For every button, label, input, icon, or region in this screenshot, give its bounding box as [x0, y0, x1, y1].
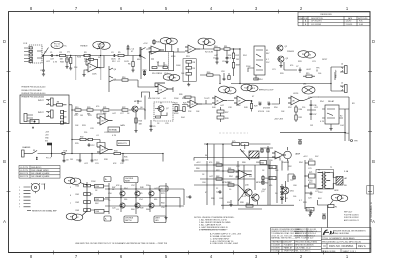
svg-text:6: 6	[70, 195, 71, 197]
svg-text:.047: .047	[220, 105, 224, 107]
svg-text:SM POTS: SM POTS	[20, 173, 29, 175]
svg-text:C56: C56	[161, 207, 165, 209]
svg-text:DESCRIPTION: DESCRIPTION	[311, 18, 323, 20]
svg-text:C23: C23	[308, 198, 311, 200]
svg-text:680: 680	[154, 199, 157, 201]
resistor R72	[305, 184, 315, 188]
svg-text:R80: R80	[196, 168, 200, 170]
svg-text:R29: R29	[254, 106, 257, 108]
svg-text:R15: R15	[306, 73, 309, 75]
svg-text:2 0013590: 2 0013590	[271, 248, 280, 250]
svg-text:C35: C35	[165, 123, 169, 125]
svg-text:R27: R27	[225, 112, 228, 114]
resistor R61	[228, 170, 234, 172]
svg-text:C11: C11	[267, 102, 270, 104]
connector J1	[24, 45, 42, 63]
input box header text rows	[22, 87, 46, 95]
svg-text:R42: R42	[182, 98, 186, 100]
cap C24	[189, 195, 192, 199]
resistor R42	[84, 201, 91, 204]
svg-text:680: 680	[137, 59, 140, 61]
svg-text:C10: C10	[258, 102, 261, 104]
svg-text:.047: .047	[112, 113, 116, 115]
svg-text:4700: 4700	[308, 180, 312, 182]
svg-text:R12: R12	[236, 55, 239, 57]
op-amp U4	[97, 116, 113, 125]
svg-text:560: 560	[124, 199, 127, 201]
svg-text:C32: C32	[120, 163, 124, 165]
resistor R32	[80, 138, 88, 140]
feedback U9	[97, 140, 105, 150]
long bus y132.6	[280, 132, 346, 134]
svg-text:MATERIAL: SEE NOTES ___: MATERIAL: SEE NOTES ___	[271, 237, 296, 240]
oval callout P/O J3	[298, 51, 316, 58]
pa to ps link wires	[194, 158, 288, 171]
svg-text:LG POTS: LG POTS	[20, 167, 29, 169]
svg-text:.047: .047	[214, 55, 218, 57]
svg-text:C18: C18	[221, 71, 224, 73]
svg-text:10: 10	[229, 189, 231, 191]
svg-text:47: 47	[205, 192, 207, 194]
svg-text:2: 2	[19, 190, 20, 192]
notes leader ticks	[170, 189, 184, 208]
label stack power	[45, 132, 50, 143]
svg-text:CO #81145: CO #81145	[311, 24, 322, 26]
svg-text:4558: 4558	[174, 113, 178, 115]
svg-text:INPUT: INPUT	[38, 100, 45, 102]
op-amp U5	[187, 100, 202, 108]
svg-text:C25: C25	[74, 115, 78, 117]
svg-text:220K: 220K	[174, 98, 179, 100]
svg-text:PCB P/N 0013591: PCB P/N 0013591	[344, 214, 359, 216]
svg-text:J2: J2	[75, 181, 77, 183]
svg-text:RESISTOR ON SIGNAL REF: RESISTOR ON SIGNAL REF	[32, 210, 58, 213]
svg-text:R11: R11	[224, 46, 227, 48]
svg-text:C66: C66	[293, 185, 297, 187]
boxed label lower right	[154, 216, 166, 223]
comp near meter	[298, 140, 302, 145]
resistor R69	[269, 177, 276, 180]
svg-text:Q16: Q16	[245, 185, 249, 187]
svg-text:U6: U6	[216, 101, 218, 103]
svg-text:1N4448: 1N4448	[282, 162, 289, 164]
ground stub U1	[84, 70, 86, 73]
cap cluster left of lamp	[288, 174, 295, 182]
pa vertical wires	[207, 144, 268, 209]
svg-text:TP3: TP3	[202, 42, 205, 44]
ps vertical bus	[304, 160, 306, 209]
svg-text:R66: R66	[265, 178, 268, 180]
svg-text:J2: J2	[230, 90, 232, 92]
svg-text:5W: 5W	[249, 176, 252, 178]
svg-text:90: 90	[205, 155, 207, 157]
output bus outline	[318, 97, 349, 141]
svg-text:C15: C15	[125, 160, 128, 162]
zone numbers bottom	[30, 254, 349, 259]
transistor Q11	[120, 203, 125, 208]
svg-text:1M: 1M	[57, 102, 60, 104]
ground Q3	[280, 62, 282, 64]
svg-text:PCB ASSY: PCB ASSY	[284, 244, 294, 247]
resistor R62	[216, 178, 222, 180]
TP node	[351, 140, 353, 142]
svg-text:R34: R34	[114, 151, 117, 153]
left column wire x141	[141, 47, 146, 79]
resistor R45	[91, 194, 110, 201]
connector pin list	[24, 187, 31, 207]
ps ref text block	[344, 211, 359, 222]
svg-text:R42: R42	[76, 202, 79, 204]
svg-text:U9: U9	[101, 150, 103, 152]
svg-text:R65: R65	[261, 163, 264, 165]
svg-text:Q4: Q4	[114, 69, 117, 71]
diagonal wire	[304, 97, 319, 101]
svg-text:D: D	[3, 39, 6, 44]
svg-text:B: B	[372, 159, 375, 164]
resistor R26	[183, 96, 195, 104]
scan band vertical light gray x100	[100, 44, 101, 80]
svg-text:C17: C17	[164, 73, 168, 75]
boxed label upper mid	[124, 177, 138, 183]
svg-text:R20: R20	[87, 107, 90, 109]
resistor R60	[216, 164, 222, 166]
component above op-amp U1B	[153, 39, 155, 45]
junction node	[128, 47, 141, 58]
fuse box F1	[328, 205, 334, 208]
feedback resistor boxes U6	[217, 107, 224, 122]
svg-text:TO J2: TO J2	[244, 87, 249, 89]
second preamp row wire y139.5	[72, 139, 100, 141]
resistor R63	[228, 184, 234, 186]
sideways drawing number strip at right border	[367, 186, 374, 195]
svg-text:1M: 1M	[70, 159, 73, 161]
tick right of pot	[44, 184, 46, 190]
components K1 lower	[248, 68, 258, 80]
power supply value labels	[303, 156, 349, 204]
svg-text:5. REFERENCES NOT USED:: 5. REFERENCES NOT USED:	[199, 230, 227, 232]
svg-text:470/16: 470/16	[258, 111, 264, 113]
svg-text:R98: R98	[240, 202, 244, 204]
wire jacks link	[331, 67, 340, 91]
svg-text:C8: C8	[66, 160, 68, 162]
capacitor C2 to ground	[43, 56, 45, 69]
svg-text:FENDER P/N 005-6145-000: FENDER P/N 005-6145-000	[22, 87, 46, 89]
svg-text:R68: R68	[270, 167, 273, 169]
svg-text:LVL: LVL	[160, 189, 163, 191]
svg-text:100K: 100K	[236, 105, 241, 107]
oval pair TO J2 PIN	[241, 84, 258, 91]
svg-text:EFFECTS LOOP: EFFECTS LOOP	[259, 90, 274, 92]
svg-text:C9: C9	[44, 52, 46, 54]
svg-text:U4: U4	[101, 121, 103, 123]
component on left column	[143, 70, 147, 76]
svg-text:C52: C52	[131, 185, 135, 187]
power transistor Q17	[251, 194, 259, 201]
svg-text:TP6: TP6	[167, 77, 170, 79]
wires near lamp	[285, 181, 287, 202]
resistor R20	[87, 109, 93, 111]
svg-text:.01: .01	[163, 98, 166, 100]
svg-text:R25: R25	[183, 103, 186, 105]
junction dots input bus	[43, 55, 72, 56]
svg-text:C42: C42	[308, 97, 312, 99]
svg-text:R4: R4	[89, 55, 91, 57]
svg-text:R40 10K: R40 10K	[148, 98, 156, 100]
tick below box	[32, 127, 34, 130]
svg-text:R60: R60	[216, 162, 219, 164]
svg-text:T1: T1	[318, 170, 320, 172]
svg-text:1 0013589: 1 0013589	[271, 245, 280, 247]
svg-text:3: 3	[19, 193, 20, 195]
svg-text:A: A	[3, 219, 6, 224]
svg-text:R70: R70	[309, 159, 312, 161]
svg-text:C50: C50	[108, 193, 112, 195]
svg-text:R41: R41	[76, 194, 79, 196]
svg-text:C37: C37	[313, 114, 316, 116]
svg-text:7: 7	[19, 207, 20, 209]
svg-text:100: 100	[318, 73, 321, 75]
svg-text:2N5089: 2N5089	[287, 51, 294, 53]
op-amp U1B	[149, 46, 165, 54]
svg-text:10: 10	[99, 68, 101, 70]
svg-text:2: 2	[31, 51, 32, 53]
svg-text:R75: R75	[232, 141, 235, 143]
wire to next stage	[100, 56, 112, 68]
component near title block	[322, 214, 326, 219]
pa horizontal wires	[194, 165, 270, 185]
zone tick marks top	[54, 10, 279, 14]
svg-text:R56: R56	[345, 133, 349, 135]
svg-text:EFFECTS: EFFECTS	[118, 143, 127, 145]
vertical wire x240	[239, 49, 241, 77]
svg-text:.047: .047	[209, 176, 213, 178]
svg-text:.047: .047	[50, 59, 54, 61]
svg-text:R71: R71	[309, 172, 312, 174]
svg-text:220K: 220K	[91, 181, 96, 183]
ground under C2B	[65, 65, 68, 68]
svg-text:R24: R24	[174, 103, 177, 105]
svg-text:4.7K: 4.7K	[320, 121, 325, 123]
drops with caps	[80, 154, 123, 159]
potentiometer rear view	[31, 183, 40, 193]
svg-text:P/O: P/O	[302, 54, 306, 56]
svg-text:C31: C31	[95, 163, 99, 165]
wire Q1 out	[166, 44, 185, 52]
svg-text:470: 470	[269, 185, 272, 187]
resistor R18	[52, 152, 73, 154]
svg-text:R19: R19	[186, 56, 190, 58]
resistor R40	[84, 184, 91, 187]
svg-text:C13: C13	[76, 160, 79, 162]
svg-text:1.5K: 1.5K	[158, 73, 163, 75]
junction dots bus	[86, 185, 87, 211]
svg-text:4: 4	[31, 58, 32, 60]
svg-text:R16: R16	[122, 77, 125, 79]
resistor R71	[305, 174, 315, 178]
svg-text:R70: R70	[161, 193, 165, 195]
jack J6 input A	[46, 98, 53, 106]
transistor Q15	[149, 203, 154, 208]
svg-text:R86: R86	[242, 162, 246, 164]
svg-text:4558: 4558	[171, 56, 175, 58]
svg-text:C: C	[372, 99, 375, 104]
svg-text:R44: R44	[96, 186, 99, 188]
svg-text:1M: 1M	[80, 115, 83, 117]
svg-text:10/25: 10/25	[124, 61, 129, 63]
svg-text:D5: D5	[275, 193, 277, 195]
svg-text:TP7: TP7	[173, 78, 176, 80]
resistor stack right	[250, 100, 252, 111]
svg-text:R52: R52	[288, 107, 292, 109]
resistor R21	[103, 109, 109, 111]
zone letters right	[372, 39, 375, 224]
svg-text:R33: R33	[82, 125, 86, 127]
svg-text:DPDT: DPDT	[322, 59, 328, 61]
svg-text:GAIN: GAIN	[120, 124, 125, 127]
svg-text:ITEM PART NO: ITEM PART NO	[271, 241, 284, 244]
svg-text:R49: R49	[140, 208, 143, 210]
ac plug hatched box	[336, 177, 343, 186]
mid-left value labels	[70, 100, 142, 165]
boxed label lower mid	[124, 216, 138, 223]
svg-text:R26: R26	[280, 73, 284, 75]
svg-text:7: 7	[70, 203, 71, 205]
svg-text:R82: R82	[216, 170, 220, 172]
svg-text:C27: C27	[120, 113, 124, 115]
resistor legend line	[27, 210, 31, 212]
op-amp U9	[97, 145, 113, 154]
resistor R23 vert	[135, 112, 137, 129]
svg-text:ASSY 0013590 C1: ASSY 0013590 C1	[344, 219, 359, 222]
resistor R3	[84, 54, 90, 56]
svg-text:J1 IN: J1 IN	[23, 43, 28, 45]
svg-text:REVISIONS: REVISIONS	[320, 14, 332, 16]
svg-text:100K: 100K	[92, 74, 97, 76]
top-mid stage value labels	[112, 43, 190, 75]
resistor R19	[75, 109, 81, 111]
resistor R11	[224, 48, 240, 50]
svg-text:R96: R96	[211, 198, 215, 200]
resistor R10	[214, 48, 224, 50]
wire Q6 collector	[138, 96, 145, 120]
svg-text:C24: C24	[186, 197, 189, 199]
svg-text:C68: C68	[219, 198, 223, 200]
svg-text:+41V: +41V	[303, 156, 308, 158]
svg-text:R40: R40	[76, 186, 79, 188]
wire oval to fuse	[330, 201, 333, 205]
svg-text:R90: R90	[269, 160, 273, 162]
svg-text:R14: R14	[259, 79, 262, 81]
legend table	[19, 166, 60, 179]
ground ps	[310, 209, 312, 211]
svg-text:SYM: SYM	[304, 18, 308, 20]
svg-text:470/16V: 470/16V	[263, 108, 271, 110]
svg-text:C1: C1	[50, 52, 52, 54]
svg-text:R99: R99	[303, 202, 307, 204]
svg-text:R12: R12	[112, 61, 116, 63]
svg-text:P/O: P/O	[335, 197, 339, 199]
svg-text:P/O: P/O	[70, 216, 74, 218]
wire box to preamp	[69, 105, 72, 110]
svg-text:C: C	[3, 99, 6, 104]
svg-text:C60: C60	[202, 182, 206, 184]
svg-text:Q2: Q2	[285, 46, 288, 48]
svg-text:470: 470	[290, 65, 293, 67]
op-amp U1A	[86, 56, 100, 73]
svg-text:1: 1	[19, 187, 20, 189]
svg-text:470: 470	[96, 106, 99, 108]
svg-text:SCALE: NONE: SCALE: NONE	[322, 250, 336, 253]
svg-text:120V: 120V	[318, 192, 323, 194]
svg-text:U2: U2	[189, 49, 191, 51]
svg-text:C9: C9	[153, 126, 155, 128]
resistor R76	[241, 143, 249, 146]
svg-text:C40: C40	[266, 111, 270, 113]
svg-text:C5: C5	[213, 58, 215, 60]
svg-text:R69: R69	[270, 178, 273, 180]
resistor R70	[305, 161, 315, 165]
resistor box R65	[260, 161, 267, 165]
transistor column left	[109, 66, 113, 92]
svg-text:TP1: TP1	[164, 41, 167, 43]
svg-text:R6: R6	[128, 64, 130, 66]
op-amp U2	[185, 45, 200, 53]
svg-text:C38: C38	[228, 107, 232, 109]
svg-text:PIN 3: PIN 3	[250, 88, 255, 90]
svg-text:R66: R66	[131, 209, 135, 211]
cap C21	[219, 190, 222, 194]
stage box Q1	[150, 52, 174, 71]
wire x72 vertical	[71, 110, 73, 140]
svg-text:R19: R19	[75, 107, 78, 109]
svg-text:TITLE SCHEMATIC: M-80 BASS: TITLE SCHEMATIC: M-80 BASS	[322, 237, 355, 240]
svg-text:D.M.: D.M.	[359, 24, 364, 26]
svg-text:1W: 1W	[310, 125, 313, 127]
scan band vertical light gray x75	[75, 55, 76, 80]
power transistor Q16	[244, 189, 252, 196]
svg-text:R35: R35	[124, 157, 127, 159]
svg-text:FB-MA 5 PIN DIN JACK: FB-MA 5 PIN DIN JACK	[22, 89, 43, 92]
resistor R46	[91, 210, 110, 214]
meter circle M1	[284, 147, 292, 161]
wire stage to bus	[200, 74, 220, 84]
wire main input bus	[42, 48, 104, 58]
svg-text:1M: 1M	[236, 59, 239, 61]
mid-right value labels	[288, 93, 355, 135]
svg-text:.0047: .0047	[306, 69, 311, 71]
resistor R22	[122, 109, 128, 111]
svg-text:R88: R88	[256, 162, 260, 164]
svg-text:4.7: 4.7	[299, 200, 302, 202]
boxed label NORMAL	[108, 127, 120, 132]
op-amp U8 power	[288, 96, 304, 105]
junction dots bus	[233, 48, 241, 49]
caps C36	[310, 103, 313, 107]
svg-text:APPR. T.CURTIS 10-9: APPR. T.CURTIS 10-9	[295, 237, 313, 240]
svg-text:K2: K2	[340, 116, 342, 118]
resistor R33	[88, 138, 93, 140]
svg-text:GRN: GRN	[334, 190, 339, 192]
transistor Q10	[120, 191, 125, 196]
op-amp U3	[155, 83, 173, 94]
svg-text:XFMR PWR: XFMR PWR	[284, 251, 294, 253]
svg-text:+15V: +15V	[143, 43, 148, 45]
transistor Q13	[135, 203, 140, 208]
oval pair P/O J2 upper	[64, 177, 81, 184]
svg-text:330: 330	[227, 202, 230, 204]
svg-text:U8: U8	[292, 101, 294, 103]
chassis pin	[22, 150, 33, 157]
